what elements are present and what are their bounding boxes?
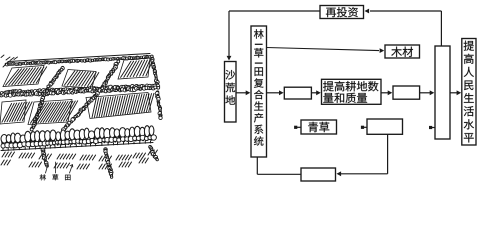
empty box 2 (middle row) xyxy=(393,86,420,99)
box 沙荒地 (sandy wasteland) xyxy=(225,62,237,123)
label 林 (forest) xyxy=(40,174,46,180)
field row2 mid xyxy=(28,100,72,125)
box 再投资 (reinvest) xyxy=(320,6,364,19)
box 提高人民生活水平 (improve people's living standard) xyxy=(462,39,476,146)
empty box 4 (bottom) xyxy=(301,168,336,181)
label 林—草—田复合生产系统 vertical xyxy=(254,29,264,38)
stub arrow into tall box (lower) xyxy=(429,126,432,129)
label callout lines xyxy=(46,164,49,173)
wire: 林草田系统 to empty box 1 xyxy=(267,92,280,94)
wire: 提高耕地数量和质量 to empty box 2 xyxy=(381,92,388,94)
wire: tall box to 提高人民生活水平 xyxy=(450,92,457,94)
box 木材 (timber) xyxy=(385,45,420,58)
tall empty box xyxy=(435,46,450,139)
wire: 林草田系统 to 木材 xyxy=(267,48,380,51)
ground hatch strokes xyxy=(2,152,5,157)
diagonal belt 1 upper xyxy=(44,66,64,92)
label 青草 xyxy=(308,122,318,132)
label 再投资 xyxy=(326,8,336,17)
diagonal belt 2 upper xyxy=(101,61,119,88)
label 提高耕地数量和质量 two lines xyxy=(323,81,334,91)
empty box 1 (middle row) xyxy=(284,87,311,99)
box 提高耕地数量和质量 (improve cropland quantity and quality) xyxy=(322,79,382,104)
diagonal belt 1 lower xyxy=(31,96,45,131)
field row2 left xyxy=(0,100,26,124)
field row1 left xyxy=(3,66,44,87)
empty box 3 (grass row) xyxy=(367,119,403,134)
wire: 沙荒地 to 林草田系统 xyxy=(236,92,246,94)
wire: 再投资 to 沙荒地 top xyxy=(229,10,320,12)
middle tree row (dense double) xyxy=(2,85,155,97)
hand-drawn agroforestry sketch (left) xyxy=(0,54,162,179)
wire: tall box top to 再投资 (feedback) xyxy=(370,10,441,12)
box 林-草-田复合生产系统 (forest-grass-field system) xyxy=(251,26,267,157)
small bush columns below front row xyxy=(42,150,48,167)
horizon tick marks upper-left xyxy=(1,55,18,67)
back tree row xyxy=(6,56,150,65)
right edge belt lower xyxy=(156,92,162,118)
front row baseline xyxy=(1,143,153,151)
diagonal belt 2 lower xyxy=(62,92,99,130)
front tree row (two layers of small trees) xyxy=(1,137,4,147)
wire: empty box 3 bottom to bottom box xyxy=(387,134,389,174)
label 草 (grass) xyxy=(52,174,58,180)
label 木材 xyxy=(391,47,402,57)
right edge belt upper xyxy=(151,57,159,88)
box 青草 (green grass) xyxy=(301,120,337,134)
wire: empty box 2 to tall box xyxy=(420,92,430,94)
stub arrow into empty box 3 xyxy=(361,126,364,129)
label 田 (field) xyxy=(65,175,70,181)
field row2 right xyxy=(86,93,151,119)
field row1 right xyxy=(118,58,150,79)
wire: empty box 1 to 提高耕地数量和质量 xyxy=(311,92,316,94)
wire: 林草田系统 bottom to bottom box xyxy=(256,157,258,174)
stub arrow into 青草 xyxy=(294,126,297,129)
field row1 mid xyxy=(62,70,96,89)
horizon line xyxy=(8,54,150,62)
label 提高人民生活水平 vertical xyxy=(464,41,474,51)
label 沙荒地 vertical xyxy=(225,70,235,80)
